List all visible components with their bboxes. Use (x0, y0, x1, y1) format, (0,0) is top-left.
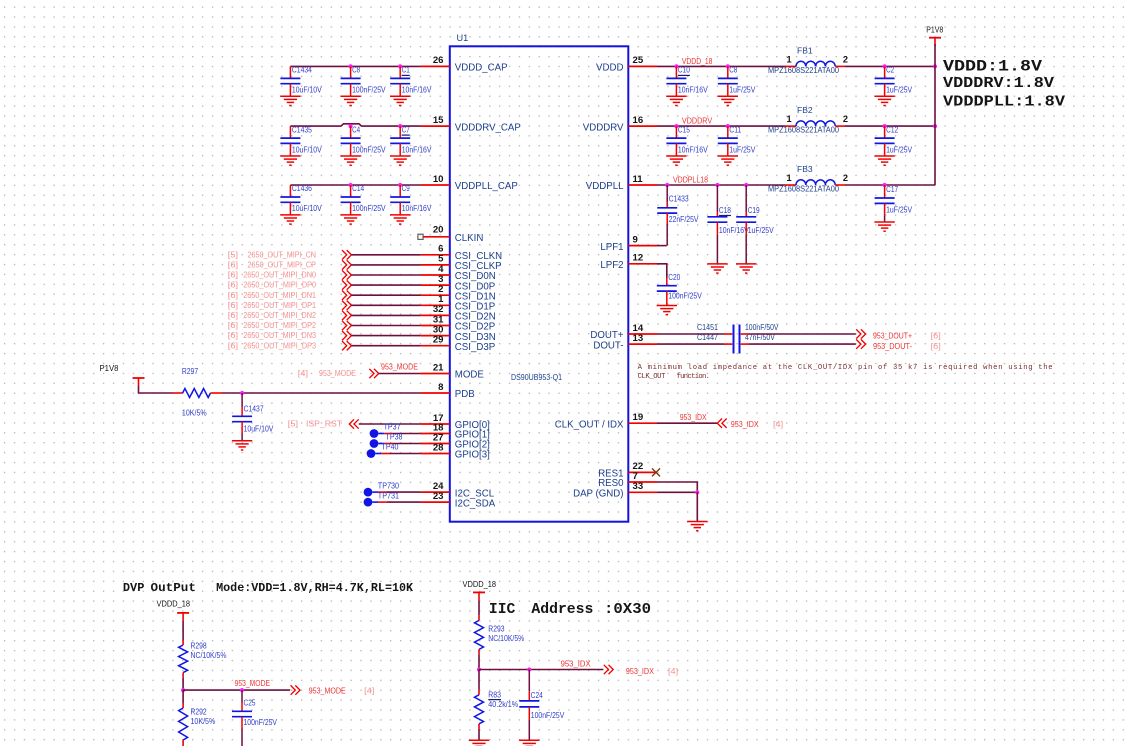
pin 12 LPF2 stub (628, 263, 657, 265)
op-amp U1 DS90UB953-Q1 IC body (450, 46, 629, 521)
svg-text:CSI_D3P: CSI_D3P (455, 342, 495, 353)
svg-text:28: 28 (433, 442, 444, 453)
wire DAP to ground (657, 491, 697, 493)
svg-text:function.: function. (677, 373, 711, 381)
svg-text:C12: C12 (886, 124, 898, 134)
svg-text:2: 2 (843, 55, 848, 65)
svg-text:R83: R83 (488, 689, 501, 699)
svg-text:20: 20 (433, 224, 444, 235)
svg-text:Mode:VDD=1.8V,RH=4.7K,RL=10K: Mode:VDD=1.8V,RH=4.7K,RL=10K (216, 581, 414, 595)
svg-text:R297: R297 (182, 366, 198, 376)
capacitor C11 1uF/25V (726, 124, 730, 128)
svg-text:[6]: [6] (228, 340, 238, 350)
wire R83 to ground (478, 729, 480, 740)
wire left bank VDDPLL_CAP (290, 184, 420, 186)
svg-text:100nF/25V: 100nF/25V (352, 203, 386, 213)
pin 32 CSI_D2N stub (421, 314, 450, 316)
svg-text:19: 19 (633, 412, 644, 423)
svg-text:1uF/25V: 1uF/25V (886, 85, 912, 95)
svg-text:1: 1 (786, 114, 791, 124)
svg-text:12: 12 (633, 253, 644, 264)
svg-text:C19: C19 (748, 205, 760, 215)
svg-text:TP731: TP731 (378, 490, 400, 500)
svg-text:DVP: DVP (123, 581, 144, 595)
wire left bank VDDDRV_CAP (290, 124, 420, 126)
svg-text:953_DOUT-: 953_DOUT- (873, 341, 912, 351)
svg-text:C8: C8 (352, 65, 360, 75)
pin 8 PDB stub (421, 392, 450, 394)
wire R293 to junction (478, 654, 480, 669)
svg-text:C18: C18 (719, 205, 731, 215)
svg-text:Address: Address (531, 602, 593, 618)
ground of C24 (519, 739, 539, 741)
svg-text:CLK_OUT: CLK_OUT (638, 373, 666, 381)
wire VDDPLL rail (657, 184, 785, 186)
svg-text:10nF/16V: 10nF/16V (402, 203, 432, 213)
svg-text:C1451: C1451 (697, 322, 718, 332)
svg-text:953_MODE: 953_MODE (309, 685, 346, 695)
svg-text:10uF/10V: 10uF/10V (244, 424, 274, 434)
svg-text:PDB: PDB (455, 389, 475, 400)
svg-text:NC/10K/5%: NC/10K/5% (488, 633, 524, 643)
svg-text:100nF/25V: 100nF/25V (531, 710, 565, 720)
capacitor C18 10nF/16V (715, 183, 719, 187)
svg-text:13: 13 (633, 333, 644, 344)
svg-text:1uF/25V: 1uF/25V (729, 85, 755, 95)
svg-text:C1434: C1434 (292, 65, 312, 75)
pin 24 I2C_SCL stub (421, 491, 450, 493)
svg-text:2650_OUT_MIPI_DP2: 2650_OUT_MIPI_DP2 (243, 320, 316, 330)
svg-text::0X30: :0X30 (604, 602, 651, 618)
wire 953_IDX (479, 669, 603, 671)
wire DOUT+ to off-page (741, 333, 749, 335)
svg-text:21: 21 (433, 362, 444, 373)
capacitor C15 10nF/16V (674, 124, 678, 128)
svg-text:VDDPLL: VDDPLL (586, 181, 624, 192)
ground of C18 (707, 263, 727, 265)
node 953_DOUT- off-page connector (856, 339, 865, 348)
svg-text:GPIO[3]: GPIO[3] (455, 450, 490, 461)
node 953_MODE off-page connector (bottom) (291, 685, 300, 694)
svg-text:100nF/25V: 100nF/25V (352, 85, 386, 95)
inductor FB2 MPZ1608S221ATA00 ferrite bead (785, 125, 796, 127)
svg-text:VDDPLL_CAP: VDDPLL_CAP (455, 181, 518, 192)
svg-text:10: 10 (433, 174, 444, 185)
wire VDDD_18 to R293 (478, 600, 480, 615)
pin 10 VDDPLL_CAP stub (421, 184, 450, 186)
svg-text:2650_OUT_MIPI_DN0: 2650_OUT_MIPI_DN0 (243, 270, 316, 280)
svg-text:VDDDRV:1.8V: VDDDRV:1.8V (943, 75, 1054, 92)
svg-text:15: 15 (433, 115, 444, 126)
ground of C1437 (232, 440, 252, 442)
svg-text:[5]: [5] (228, 249, 238, 259)
capacitor C25 100nF/25V (241, 690, 243, 702)
svg-text:U1: U1 (457, 33, 469, 43)
svg-text:R292: R292 (191, 707, 207, 717)
pin 33 DAP (GND) stub (628, 491, 657, 493)
pin 30 CSI_D3N stub (421, 335, 450, 337)
svg-text:DAP (GND): DAP (GND) (573, 489, 623, 500)
ground of C17 (874, 221, 894, 223)
inductor FB3 MPZ1608S221ATA00 ferrite bead (785, 184, 796, 186)
pin 17 GPIO[0] stub (421, 423, 450, 425)
svg-text:C1433: C1433 (669, 193, 689, 203)
svg-text:VDDD_18: VDDD_18 (463, 580, 497, 589)
svg-text:VDDD_18: VDDD_18 (157, 599, 191, 608)
capacitor C7 10nF/16V (398, 124, 402, 128)
svg-text:R298: R298 (191, 640, 207, 650)
svg-text:10nF/16V: 10nF/16V (678, 85, 708, 95)
capacitor C20 100nF/25V (666, 278, 668, 286)
pin 6 CSI_CLKN stub (421, 254, 450, 256)
capacitor C4 100nF/25V (349, 124, 353, 128)
svg-text:953_MODE: 953_MODE (319, 368, 356, 378)
svg-text:TP37: TP37 (384, 422, 401, 432)
svg-text:C25: C25 (244, 698, 256, 708)
svg-text:C20: C20 (668, 272, 680, 282)
capacitor C17 1uF/25V (883, 183, 887, 187)
svg-text:C1447: C1447 (697, 332, 718, 342)
ground of C19 (736, 263, 756, 265)
capacitor C1451 100nF/50V series (657, 333, 724, 335)
svg-text:[6]: [6] (228, 300, 238, 310)
svg-text:MPZ1608S221ATA00: MPZ1608S221ATA00 (768, 65, 839, 75)
svg-text:10uF/10V: 10uF/10V (292, 144, 322, 154)
svg-text:[6]: [6] (228, 330, 238, 340)
capacitor C12 1uF/25V (883, 124, 887, 128)
test point TP730 (364, 488, 373, 497)
svg-text:LPF1: LPF1 (600, 242, 623, 253)
wire RES0 to ground net (657, 482, 697, 492)
svg-text:[4]: [4] (298, 368, 308, 378)
svg-text:TP38: TP38 (386, 432, 403, 442)
test point TP731 (364, 498, 373, 507)
svg-text:A minimum load impedance at th: A minimum load impedance at the CLK_OUT/… (638, 364, 1053, 372)
junction at C1437 (240, 391, 244, 395)
svg-text:I2C_SDA: I2C_SDA (455, 498, 496, 509)
capacitor C9 10nF/16V (398, 183, 402, 187)
svg-text:IIC: IIC (489, 602, 516, 618)
svg-text:VDDPLL18: VDDPLL18 (673, 174, 708, 184)
junction VDDD_18 at bus (933, 64, 937, 68)
svg-text:[6]: [6] (228, 310, 238, 320)
wire P1V8 to R297 (139, 386, 173, 393)
svg-text:26: 26 (433, 55, 444, 66)
svg-text:10nF/16V: 10nF/16V (719, 225, 749, 235)
svg-text:CLK_OUT / IDX: CLK_OUT / IDX (555, 419, 624, 430)
ground RES0/DAP (687, 521, 707, 523)
pin 21 MODE stub (421, 373, 450, 375)
pin 5 CSI_CLKP stub (421, 264, 450, 266)
svg-text:[6]: [6] (931, 331, 941, 341)
svg-text:[6]: [6] (931, 341, 941, 351)
svg-text:LPF2: LPF2 (600, 260, 623, 271)
capacitor C1447 47nF/50V series (657, 343, 724, 345)
svg-text:[6]: [6] (228, 280, 238, 290)
svg-text:10nF/16V: 10nF/16V (678, 144, 708, 154)
svg-text:[5]: [5] (288, 419, 298, 429)
svg-text:MPZ1608S221ATA00: MPZ1608S221ATA00 (768, 184, 839, 194)
svg-text:33: 33 (633, 481, 644, 492)
wire LPF2 to C20 (657, 264, 667, 278)
wire CLK_OUT to off-page (657, 422, 717, 424)
svg-text:[4]: [4] (364, 685, 374, 695)
svg-text:100nF/50V: 100nF/50V (745, 322, 779, 332)
svg-text:VDDD:1.8V: VDDD:1.8V (943, 58, 1042, 76)
resistor R297 10K/5% (173, 392, 183, 394)
wire left bank VDDD_CAP (290, 65, 420, 67)
svg-text:1: 1 (786, 55, 791, 65)
svg-text:2650_OUT_MIPI_CP: 2650_OUT_MIPI_CP (248, 260, 317, 270)
svg-text:VDDDRV: VDDDRV (583, 122, 624, 133)
pin 27 GPIO[2] stub (421, 443, 450, 445)
pin 20 CLKIN no-connect square (418, 234, 423, 239)
pin 15 VDDDRV_CAP stub (421, 125, 450, 127)
capacitor C1436 10uF/10V (289, 185, 291, 197)
svg-text:2650_OUT_MIPI_DN2: 2650_OUT_MIPI_DN2 (243, 310, 316, 320)
test point TP40 (367, 449, 376, 458)
capacitor C1437 10uF/10V (241, 393, 243, 407)
svg-text:[4]: [4] (773, 419, 783, 429)
junction 953_IDX node (477, 667, 481, 671)
node 953_IDX off-page connector (bottom) (604, 665, 613, 674)
pin 28 GPIO[3] stub (421, 453, 450, 455)
capacitor C19 1uF/25V (744, 183, 748, 187)
pin 16 VDDDRV stub (628, 125, 657, 127)
svg-text:2650_OUT_MIPI_DN1: 2650_OUT_MIPI_DN1 (243, 290, 316, 300)
resistor R298 NC/10K/5% (182, 640, 184, 645)
pin 26 VDDD_CAP stub (421, 65, 450, 67)
capacitor C10 10nF/16V (674, 64, 678, 68)
pin 29 CSI_D3P stub (421, 345, 450, 347)
svg-text:2650_OUT_MIPI_DP0: 2650_OUT_MIPI_DP0 (243, 280, 316, 290)
svg-text:TP730: TP730 (378, 480, 400, 490)
wire R297 to PDB pin (223, 392, 421, 394)
svg-text:C1437: C1437 (244, 404, 264, 414)
svg-text:[4]: [4] (668, 666, 678, 676)
svg-text:C1435: C1435 (292, 124, 312, 134)
resistor R292 10K/5% (182, 690, 184, 703)
svg-text:C2: C2 (886, 65, 894, 75)
svg-text:10nF/16V: 10nF/16V (402, 85, 432, 95)
resistor R293 NC/10K/5% (478, 615, 480, 620)
svg-text:23: 23 (433, 491, 444, 502)
svg-text:22nF/25V: 22nF/25V (669, 214, 699, 224)
svg-text:FB1: FB1 (797, 45, 813, 55)
svg-text:C17: C17 (886, 184, 898, 194)
svg-text:CLKIN: CLKIN (455, 233, 484, 244)
wire VDDD_18 rail (657, 65, 785, 67)
svg-text:DS90UB953-Q1: DS90UB953-Q1 (511, 372, 562, 382)
pin 3 CSI_D0P stub (421, 284, 450, 286)
svg-text:1uF/25V: 1uF/25V (729, 144, 755, 154)
resistor R83 40.2k/1% (478, 670, 480, 690)
svg-text:1uF/25V: 1uF/25V (886, 205, 912, 215)
svg-text:10uF/10V: 10uF/10V (292, 85, 322, 95)
svg-text:C1436: C1436 (292, 183, 312, 193)
svg-text:8: 8 (438, 382, 444, 393)
svg-text:[6]: [6] (228, 270, 238, 280)
capacitor C1433 22nF/25V (665, 183, 669, 187)
wire LPF1 to C1433 (657, 245, 667, 247)
pin 1 CSI_D1P stub (421, 304, 450, 306)
svg-text:FB3: FB3 (797, 164, 813, 174)
svg-text:1: 1 (786, 173, 791, 183)
wire DOUT- to off-page (741, 343, 749, 345)
svg-text:953_IDX: 953_IDX (680, 412, 707, 422)
pin 11 VDDPLL stub (628, 184, 657, 186)
svg-text:C9: C9 (402, 183, 410, 193)
pin 23 I2C_SDA stub (421, 501, 450, 503)
wire VDDD_18 to R298 (182, 621, 184, 640)
svg-text:11: 11 (633, 174, 644, 185)
svg-text:100nF/25V: 100nF/25V (352, 144, 386, 154)
svg-text:NC/10K/5%: NC/10K/5% (191, 650, 227, 660)
capacitor C2 1uF/25V (883, 64, 887, 68)
svg-text:100nF/25V: 100nF/25V (668, 290, 702, 300)
pin 2 CSI_D1N stub (421, 294, 450, 296)
pin 13 DOUT- stub (628, 343, 657, 345)
svg-text:TP40: TP40 (382, 442, 399, 452)
test point TP37 (370, 429, 379, 438)
wire R298 to junction (182, 678, 184, 691)
svg-text:C11: C11 (729, 124, 741, 134)
svg-text:29: 29 (433, 335, 444, 346)
svg-text:953_IDX: 953_IDX (731, 419, 759, 429)
svg-text:C7: C7 (402, 124, 410, 134)
svg-text:10K/5%: 10K/5% (182, 408, 207, 418)
no-connect X on RES1 (652, 468, 660, 476)
series capacitor plates C1451/C1447 (733, 325, 735, 354)
svg-text:C8: C8 (729, 65, 737, 75)
svg-text:C1: C1 (402, 65, 410, 75)
capacitor C1435 10uF/10V (289, 126, 291, 138)
svg-text:10K/5%: 10K/5% (191, 716, 216, 726)
svg-text:40.2k/1%: 40.2k/1% (488, 699, 518, 709)
svg-text:10uF/10V: 10uF/10V (292, 203, 322, 213)
svg-text:[6]: [6] (228, 260, 238, 270)
pin 18 GPIO[1] stub (421, 433, 450, 435)
ground of C20 (657, 305, 677, 307)
inductor FB1 MPZ1608S221ATA00 ferrite bead (785, 65, 796, 67)
svg-text:2650_OUT_MIPI_DN3: 2650_OUT_MIPI_DN3 (243, 330, 316, 340)
svg-text:25: 25 (633, 55, 644, 66)
svg-text:1uF/25V: 1uF/25V (748, 225, 774, 235)
wire P1V8 bus vertical (934, 44, 936, 185)
wire 953_MODE (183, 689, 290, 691)
junction RES0/DAP (695, 490, 699, 494)
svg-text:10nF/16V: 10nF/16V (402, 144, 432, 154)
svg-text:953_IDX: 953_IDX (626, 666, 654, 676)
ground of R83 (469, 739, 489, 741)
svg-text:C4: C4 (352, 124, 360, 134)
pin 31 CSI_D2P stub (421, 325, 450, 327)
svg-text:OutPut: OutPut (151, 581, 196, 595)
svg-text:MODE: MODE (455, 370, 485, 381)
pin 9 LPF1 stub (628, 245, 657, 247)
svg-text:DOUT-: DOUT- (593, 340, 623, 351)
svg-text:2650_OUT_MIPI_CN: 2650_OUT_MIPI_CN (248, 249, 316, 259)
svg-text:953_MODE: 953_MODE (381, 362, 418, 372)
svg-text:9: 9 (633, 234, 638, 245)
svg-text:ISP_RST: ISP_RST (306, 419, 343, 429)
svg-text:VDDD: VDDD (596, 63, 623, 74)
svg-text:C10: C10 (678, 65, 690, 75)
test point TP38 (370, 439, 379, 448)
capacitor C1434 10uF/10V (289, 66, 291, 78)
svg-text:953_IDX: 953_IDX (561, 658, 591, 668)
node 953_IDX off-page connector (717, 419, 726, 428)
capacitor C14 100nF/25V (349, 183, 353, 187)
svg-text:C15: C15 (678, 124, 690, 134)
junction 953_MODE node (181, 688, 185, 692)
svg-text:VDDDPLL:1.8V: VDDDPLL:1.8V (943, 93, 1065, 110)
pin 7 RES0 stub (628, 481, 657, 483)
svg-text:2: 2 (843, 173, 848, 183)
pin 19 CLK_OUT / IDX stub (628, 422, 657, 424)
svg-text:P1V8: P1V8 (926, 25, 943, 35)
capacitor C1 10nF/16V (398, 64, 402, 68)
svg-text:FB2: FB2 (797, 105, 813, 115)
junction at C25 (240, 688, 244, 692)
svg-text:C14: C14 (352, 183, 364, 193)
node 953_DOUT+ off-page connector (856, 329, 865, 338)
capacitor C8 100nF/25V (349, 64, 353, 68)
svg-text:1uF/25V: 1uF/25V (886, 144, 912, 154)
svg-text:R293: R293 (488, 623, 504, 633)
svg-text:953_DOUT+: 953_DOUT+ (873, 331, 912, 341)
junction VDDDRV at bus (933, 124, 937, 128)
svg-text:2650_OUT_MIPI_DP3: 2650_OUT_MIPI_DP3 (243, 340, 316, 350)
wire VDDDRV rail (657, 125, 785, 127)
capacitor C8 1uF/25V (726, 64, 730, 68)
svg-text:P1V8: P1V8 (100, 363, 119, 373)
pin 22 RES1 stub (628, 471, 657, 473)
svg-text:C24: C24 (531, 690, 543, 700)
svg-text:VDDD_CAP: VDDD_CAP (455, 63, 508, 74)
svg-text:100nF/25V: 100nF/25V (244, 717, 278, 727)
svg-text:953_MODE: 953_MODE (235, 678, 271, 688)
pin 4 CSI_D0N stub (421, 274, 450, 276)
svg-text:MPZ1608S221ATA00: MPZ1608S221ATA00 (768, 125, 839, 135)
svg-text:2: 2 (843, 114, 848, 124)
capacitor C24 100nF/25V (528, 670, 530, 692)
pin 14 DOUT+ stub (628, 333, 657, 335)
svg-text:2650_OUT_MIPI_DP1: 2650_OUT_MIPI_DP1 (243, 300, 316, 310)
svg-text:16: 16 (633, 115, 644, 126)
svg-text:VDDDRV_CAP: VDDDRV_CAP (455, 122, 521, 133)
svg-text:[6]: [6] (228, 290, 238, 300)
pin 25 VDDD stub (628, 65, 657, 67)
svg-text:[6]: [6] (228, 320, 238, 330)
junction at C24 (527, 667, 531, 671)
